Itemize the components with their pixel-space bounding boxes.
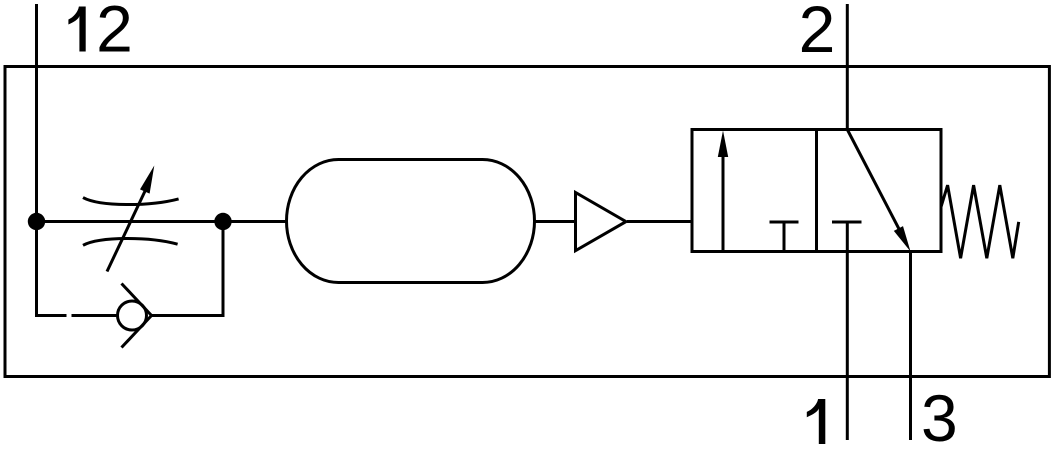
wire: amplifier to valve: [627, 220, 692, 223]
port 1 line (through valve stem): [846, 222, 849, 440]
node A (junction dot at port 12): [28, 213, 45, 230]
port 3 line: [909, 252, 912, 441]
throttle valve RZ1 restriction arcs: [83, 198, 179, 246]
valve V2 position divider: [815, 130, 818, 252]
valve V2 right cell blocked port (T): [832, 221, 862, 224]
label 12: [68, 0, 132, 66]
valve V2 body (3/2 valve, two positions): [692, 130, 941, 252]
wire: bypass left leg: [37, 222, 67, 316]
enclosure border (component box): [5, 67, 1049, 377]
svg-text:2: 2: [799, 0, 836, 66]
node B (junction dot after throttle): [214, 213, 231, 230]
check valve V1 ball: [118, 301, 147, 330]
port 2 line: [846, 4, 849, 130]
svg-text:2: 2: [96, 0, 133, 66]
port 12 pilot line: [35, 4, 38, 222]
wire: check valve to node B: [152, 230, 224, 316]
wire: reservoir to amplifier: [535, 220, 576, 223]
valve V2 left cell blocked port (T): [770, 222, 799, 252]
air reservoir B1: [287, 160, 535, 283]
throttle valve RZ1 adjustment arrow: [107, 166, 154, 272]
svg-text:3: 3: [921, 381, 958, 449]
valve V2 left cell flow arrow: [718, 131, 728, 252]
valve V2 right cell diagonal flow arrow: [847, 130, 910, 252]
label 1: [807, 399, 826, 444]
wire: bypass to check valve: [72, 314, 119, 317]
amplifier nozzle (triangle): [576, 193, 627, 251]
wire: node 12 to reservoir: [37, 220, 287, 223]
check valve V1 seat: [122, 284, 152, 348]
return spring: [941, 185, 1019, 258]
